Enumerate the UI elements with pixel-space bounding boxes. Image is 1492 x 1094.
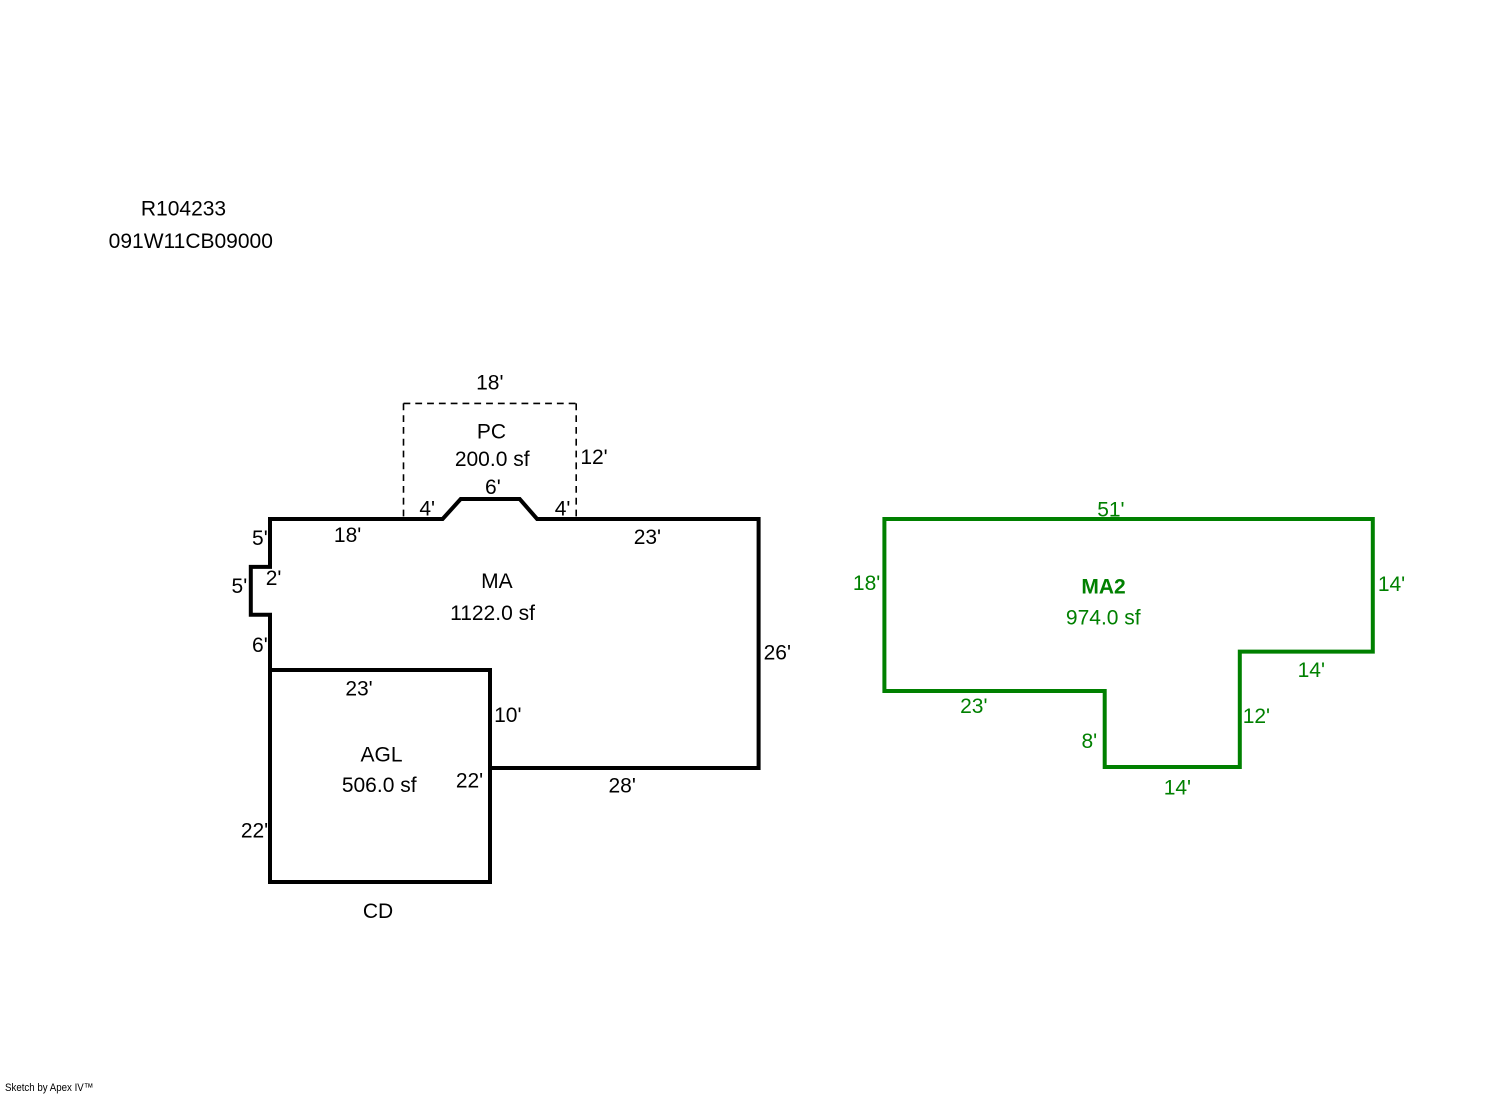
svg-text:10': 10' — [494, 704, 521, 727]
svg-text:Sketch by Apex IV™: Sketch by Apex IV™ — [5, 1082, 94, 1094]
svg-text:22': 22' — [241, 819, 268, 842]
svg-text:18': 18' — [334, 524, 361, 547]
svg-text:MA2: MA2 — [1081, 576, 1125, 599]
svg-text:6': 6' — [252, 634, 268, 657]
svg-text:18': 18' — [476, 371, 503, 394]
svg-text:2': 2' — [266, 567, 282, 590]
MA outline — [251, 499, 759, 768]
svg-text:28': 28' — [609, 775, 636, 798]
svg-text:1122.0 sf: 1122.0 sf — [450, 602, 535, 625]
svg-text:200.0 sf: 200.0 sf — [455, 448, 530, 471]
svg-text:23': 23' — [960, 695, 987, 718]
svg-text:5': 5' — [232, 575, 248, 598]
svg-text:506.0 sf: 506.0 sf — [342, 774, 417, 797]
svg-text:5': 5' — [252, 527, 268, 550]
svg-text:CD: CD — [363, 900, 393, 923]
svg-text:12': 12' — [1243, 705, 1270, 728]
PC dashed outline — [404, 403, 577, 519]
svg-text:PC: PC — [477, 421, 506, 444]
svg-text:51': 51' — [1097, 499, 1124, 522]
svg-text:6': 6' — [485, 476, 501, 499]
svg-text:091W11CB09000: 091W11CB09000 — [109, 230, 273, 253]
svg-text:MA: MA — [481, 570, 513, 593]
svg-text:18': 18' — [853, 572, 880, 595]
svg-text:23': 23' — [345, 678, 372, 701]
svg-text:8': 8' — [1081, 730, 1097, 753]
svg-text:23': 23' — [634, 526, 661, 549]
svg-text:14': 14' — [1378, 573, 1405, 596]
svg-text:12': 12' — [580, 446, 607, 469]
svg-text:R104233: R104233 — [141, 198, 226, 221]
svg-text:26': 26' — [764, 642, 791, 665]
svg-text:14': 14' — [1298, 659, 1325, 682]
svg-text:22': 22' — [456, 769, 483, 792]
svg-text:AGL: AGL — [360, 744, 402, 767]
MA2 outline — [884, 519, 1372, 767]
AGL outline — [270, 670, 490, 882]
svg-text:974.0 sf: 974.0 sf — [1066, 607, 1141, 630]
svg-text:14': 14' — [1164, 777, 1191, 800]
